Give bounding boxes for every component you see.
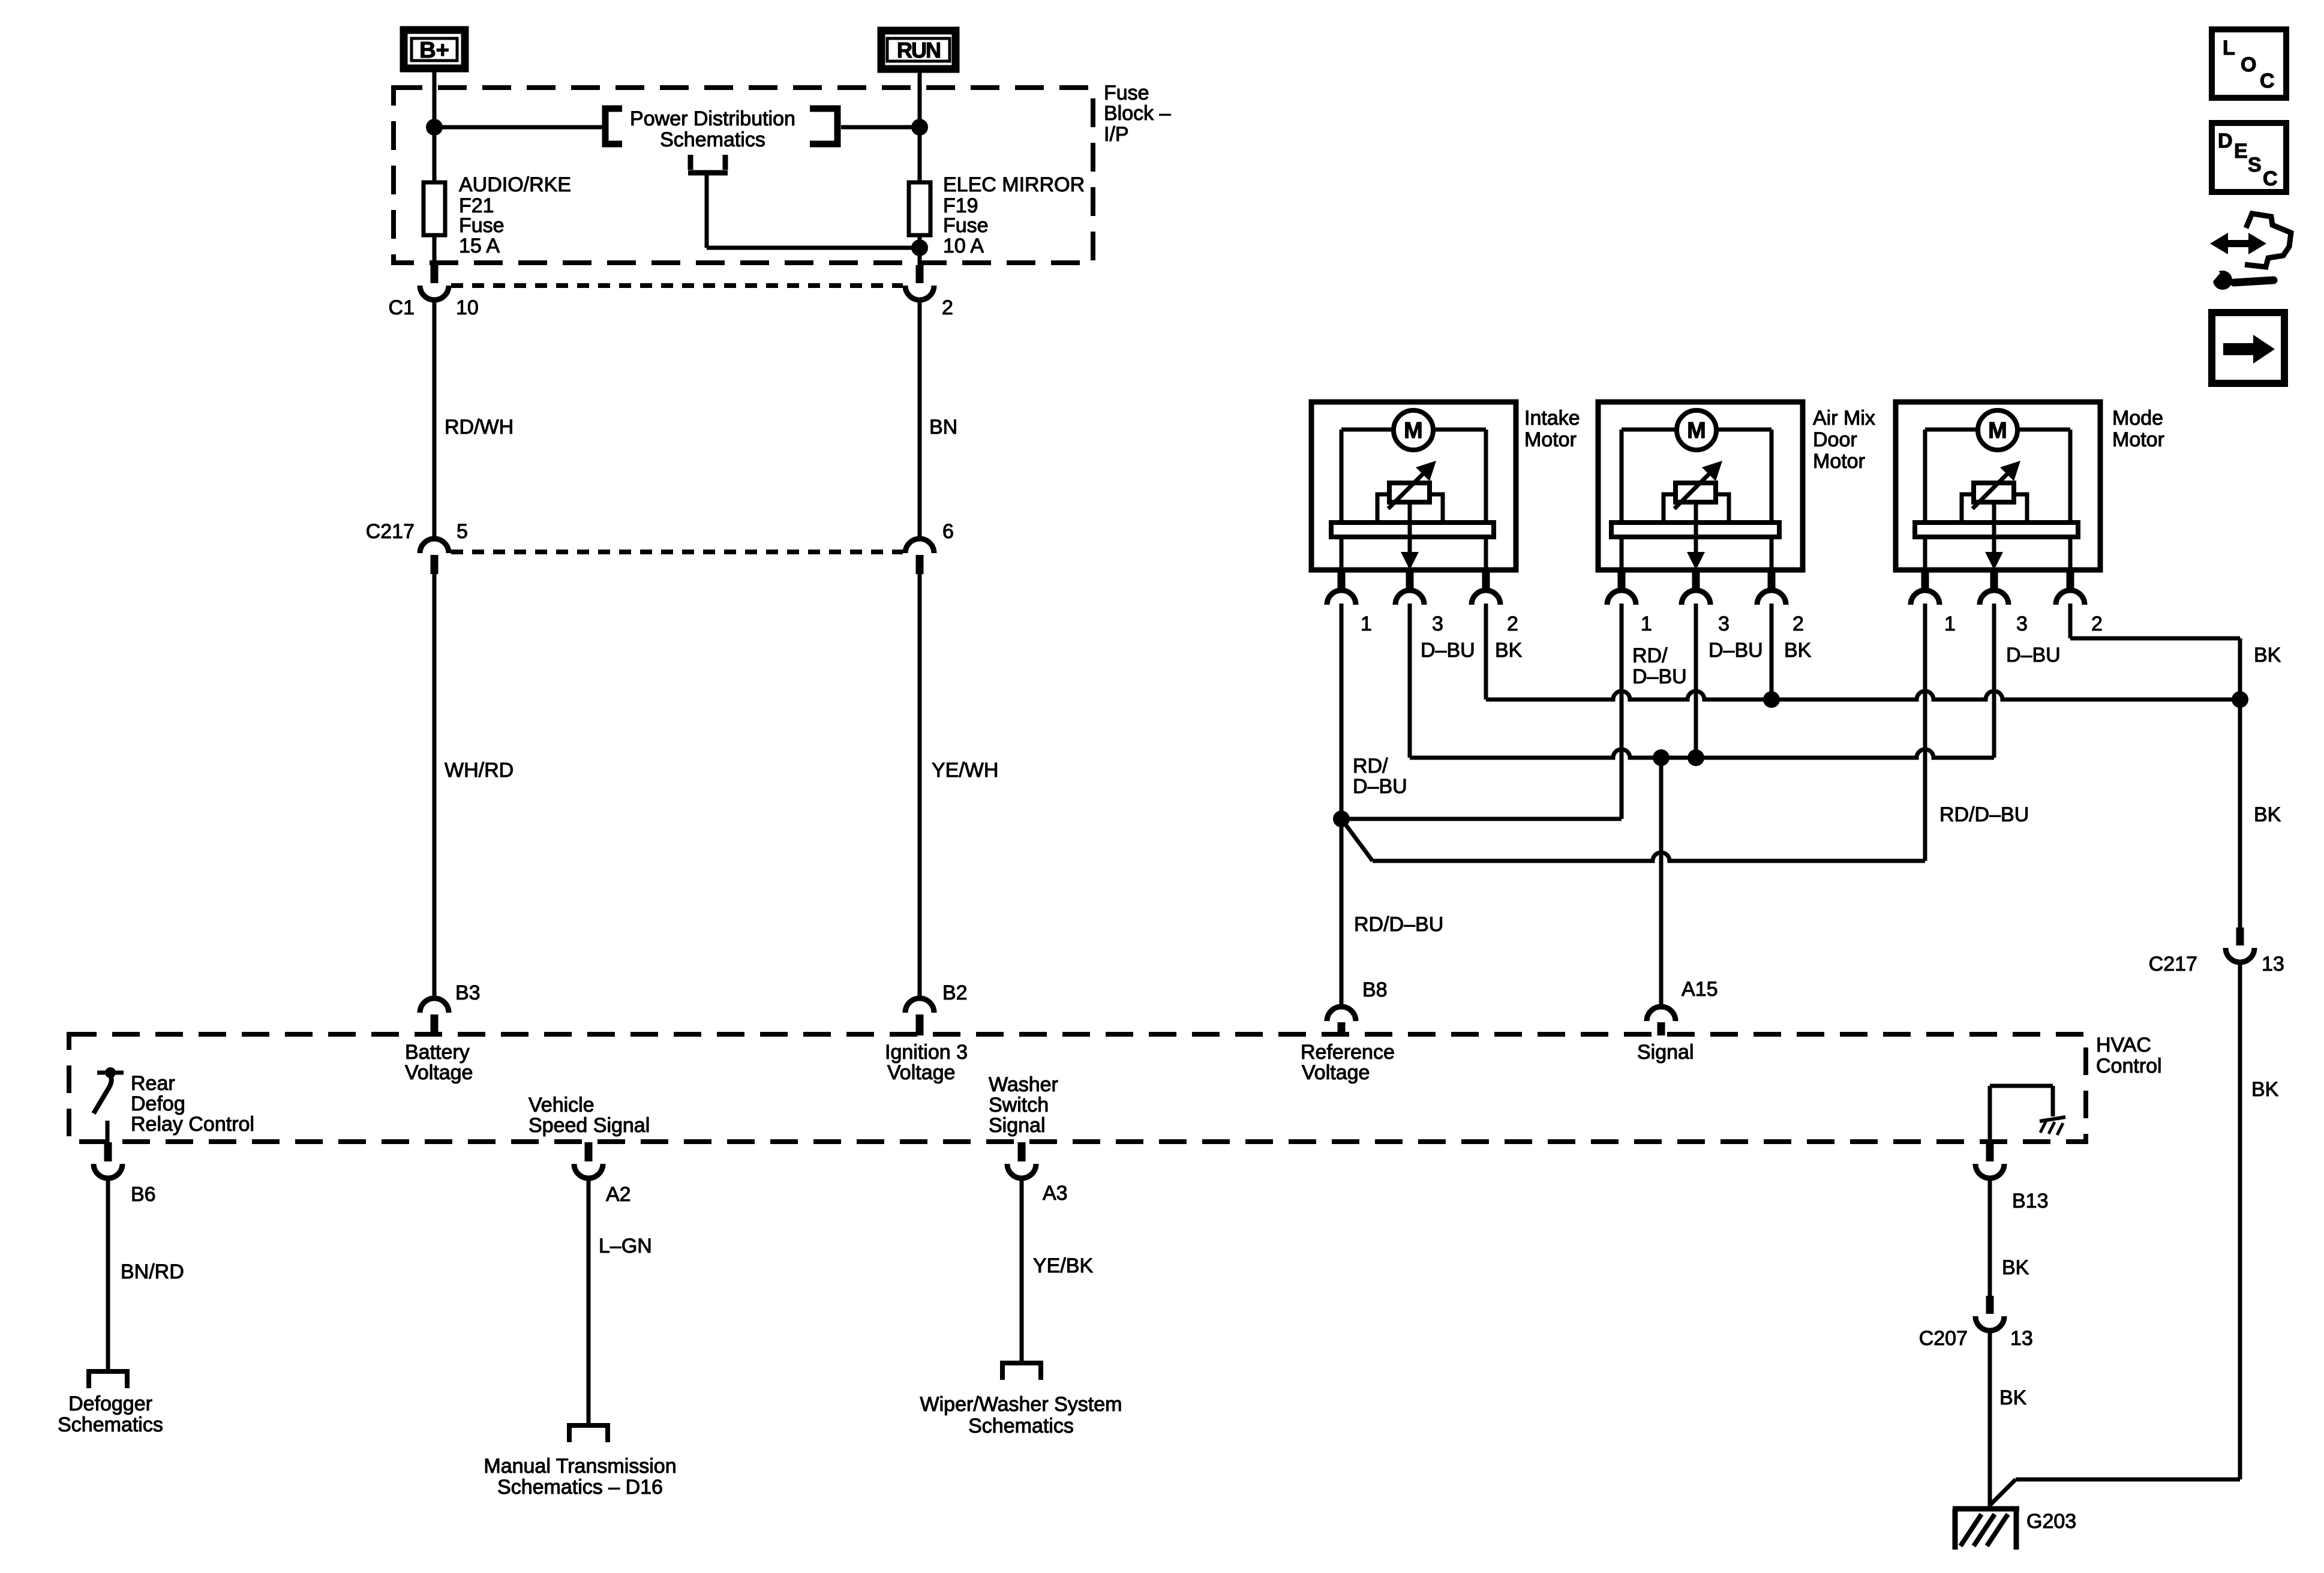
svg-text:C1: C1: [389, 296, 415, 319]
svg-text:BK: BK: [1999, 1386, 2027, 1409]
svg-text:3: 3: [1432, 613, 1443, 635]
svg-text:15 A: 15 A: [459, 235, 500, 257]
svg-text:C217: C217: [2149, 953, 2197, 975]
svg-text:2: 2: [942, 296, 953, 319]
svg-text:3: 3: [1718, 613, 1730, 635]
svg-text:Wiper/Washer System: Wiper/Washer System: [920, 1393, 1122, 1416]
svg-text:Relay Control: Relay Control: [131, 1113, 254, 1136]
svg-text:Air Mix: Air Mix: [1813, 407, 1875, 430]
svg-text:RD/D–BU: RD/D–BU: [1354, 913, 1443, 936]
svg-text:3: 3: [2016, 613, 2028, 635]
svg-text:Voltage: Voltage: [887, 1061, 955, 1084]
svg-text:B6: B6: [131, 1183, 156, 1206]
svg-text:Defog: Defog: [131, 1092, 185, 1115]
svg-text:13: 13: [2010, 1327, 2033, 1350]
svg-text:Signal: Signal: [989, 1114, 1046, 1137]
svg-text:I/P: I/P: [1104, 123, 1129, 146]
svg-text:Schematics – D16: Schematics – D16: [497, 1476, 663, 1499]
svg-text:M: M: [1404, 418, 1423, 443]
svg-text:Defogger: Defogger: [68, 1392, 152, 1415]
svg-text:1: 1: [1361, 613, 1372, 635]
svg-text:Mode: Mode: [2112, 407, 2163, 430]
svg-text:Power Distribution: Power Distribution: [630, 107, 795, 130]
svg-text:G203: G203: [2026, 1510, 2076, 1533]
svg-text:RD/D–BU: RD/D–BU: [1939, 803, 2029, 826]
svg-text:B2: B2: [942, 981, 968, 1004]
svg-text:BK: BK: [2002, 1256, 2029, 1279]
svg-text:Fuse: Fuse: [459, 214, 505, 237]
svg-text:2: 2: [1507, 613, 1518, 635]
svg-text:YE/BK: YE/BK: [1033, 1254, 1093, 1277]
svg-text:Motor: Motor: [2112, 428, 2164, 451]
svg-text:5: 5: [457, 520, 468, 543]
svg-text:Intake: Intake: [1524, 407, 1580, 430]
svg-text:BK: BK: [2254, 803, 2281, 826]
svg-text:Control: Control: [2096, 1055, 2162, 1077]
svg-text:A3: A3: [1043, 1182, 1068, 1205]
svg-text:S: S: [2248, 154, 2262, 176]
svg-text:D–BU: D–BU: [1421, 639, 1475, 662]
svg-text:6: 6: [942, 520, 954, 543]
svg-text:1: 1: [1641, 613, 1652, 635]
svg-text:L–GN: L–GN: [599, 1235, 652, 1257]
svg-text:L: L: [2223, 37, 2235, 59]
svg-text:C207: C207: [1919, 1327, 1968, 1350]
svg-text:B8: B8: [1362, 978, 1388, 1001]
svg-text:Reference: Reference: [1301, 1041, 1395, 1064]
svg-text:A15: A15: [1682, 978, 1718, 1001]
svg-text:YE/WH: YE/WH: [932, 759, 998, 782]
svg-text:Schematics: Schematics: [58, 1413, 163, 1436]
svg-text:1: 1: [1944, 613, 1956, 635]
svg-text:10 A: 10 A: [943, 235, 984, 257]
svg-text:RUN: RUN: [897, 38, 940, 62]
svg-text:Motor: Motor: [1524, 428, 1577, 451]
svg-text:B3: B3: [455, 981, 481, 1004]
svg-text:AUDIO/RKE: AUDIO/RKE: [459, 173, 571, 196]
svg-text:B13: B13: [2012, 1190, 2049, 1212]
svg-text:Schematics: Schematics: [968, 1415, 1074, 1437]
svg-text:10: 10: [456, 296, 479, 319]
svg-text:Fuse: Fuse: [1104, 82, 1149, 104]
svg-text:A2: A2: [606, 1183, 631, 1206]
svg-text:BN: BN: [929, 416, 957, 439]
svg-text:BK: BK: [2251, 1078, 2279, 1101]
svg-text:D–BU: D–BU: [1353, 775, 1407, 798]
svg-text:Battery: Battery: [405, 1041, 470, 1064]
svg-text:BK: BK: [1784, 639, 1812, 662]
svg-text:Ignition 3: Ignition 3: [885, 1041, 968, 1064]
svg-text:D: D: [2218, 130, 2233, 152]
svg-text:C217: C217: [366, 520, 415, 543]
svg-text:M: M: [1988, 418, 2007, 443]
svg-text:Block –: Block –: [1104, 102, 1171, 125]
svg-text:D–BU: D–BU: [1632, 665, 1687, 688]
svg-text:Motor: Motor: [1813, 450, 1865, 473]
svg-text:Voltage: Voltage: [1302, 1061, 1370, 1084]
svg-text:BK: BK: [1495, 639, 1523, 662]
svg-text:Rear: Rear: [131, 1072, 175, 1095]
svg-text:BK: BK: [2254, 644, 2281, 667]
svg-text:2: 2: [1792, 613, 1804, 635]
svg-text:C: C: [2263, 167, 2278, 190]
svg-text:C: C: [2260, 70, 2275, 92]
svg-text:D–BU: D–BU: [1709, 639, 1763, 662]
svg-text:Fuse: Fuse: [943, 214, 989, 237]
svg-text:RD/WH: RD/WH: [445, 416, 514, 439]
svg-text:ELEC MIRROR: ELEC MIRROR: [943, 173, 1085, 196]
svg-text:E: E: [2234, 140, 2248, 163]
svg-text:2: 2: [2091, 613, 2103, 635]
svg-text:RD/: RD/: [1353, 755, 1388, 778]
svg-text:M: M: [1687, 418, 1706, 443]
svg-text:RD/: RD/: [1632, 644, 1668, 667]
svg-text:BN/RD: BN/RD: [121, 1260, 184, 1283]
svg-text:D–BU: D–BU: [2006, 644, 2061, 667]
svg-text:Schematics: Schematics: [660, 128, 765, 151]
svg-text:Speed Signal: Speed Signal: [529, 1114, 650, 1137]
svg-text:Door: Door: [1813, 428, 1857, 451]
svg-text:Signal: Signal: [1637, 1041, 1694, 1064]
svg-text:Washer: Washer: [989, 1073, 1058, 1096]
svg-text:WH/RD: WH/RD: [445, 759, 514, 782]
svg-text:B+: B+: [419, 38, 449, 63]
svg-text:Voltage: Voltage: [405, 1061, 473, 1084]
svg-text:13: 13: [2262, 953, 2284, 975]
svg-text:Vehicle: Vehicle: [529, 1094, 594, 1116]
svg-text:HVAC: HVAC: [2096, 1034, 2151, 1056]
svg-text:O: O: [2241, 53, 2256, 76]
svg-text:Manual Transmission: Manual Transmission: [484, 1455, 676, 1478]
svg-text:Switch: Switch: [989, 1094, 1049, 1116]
